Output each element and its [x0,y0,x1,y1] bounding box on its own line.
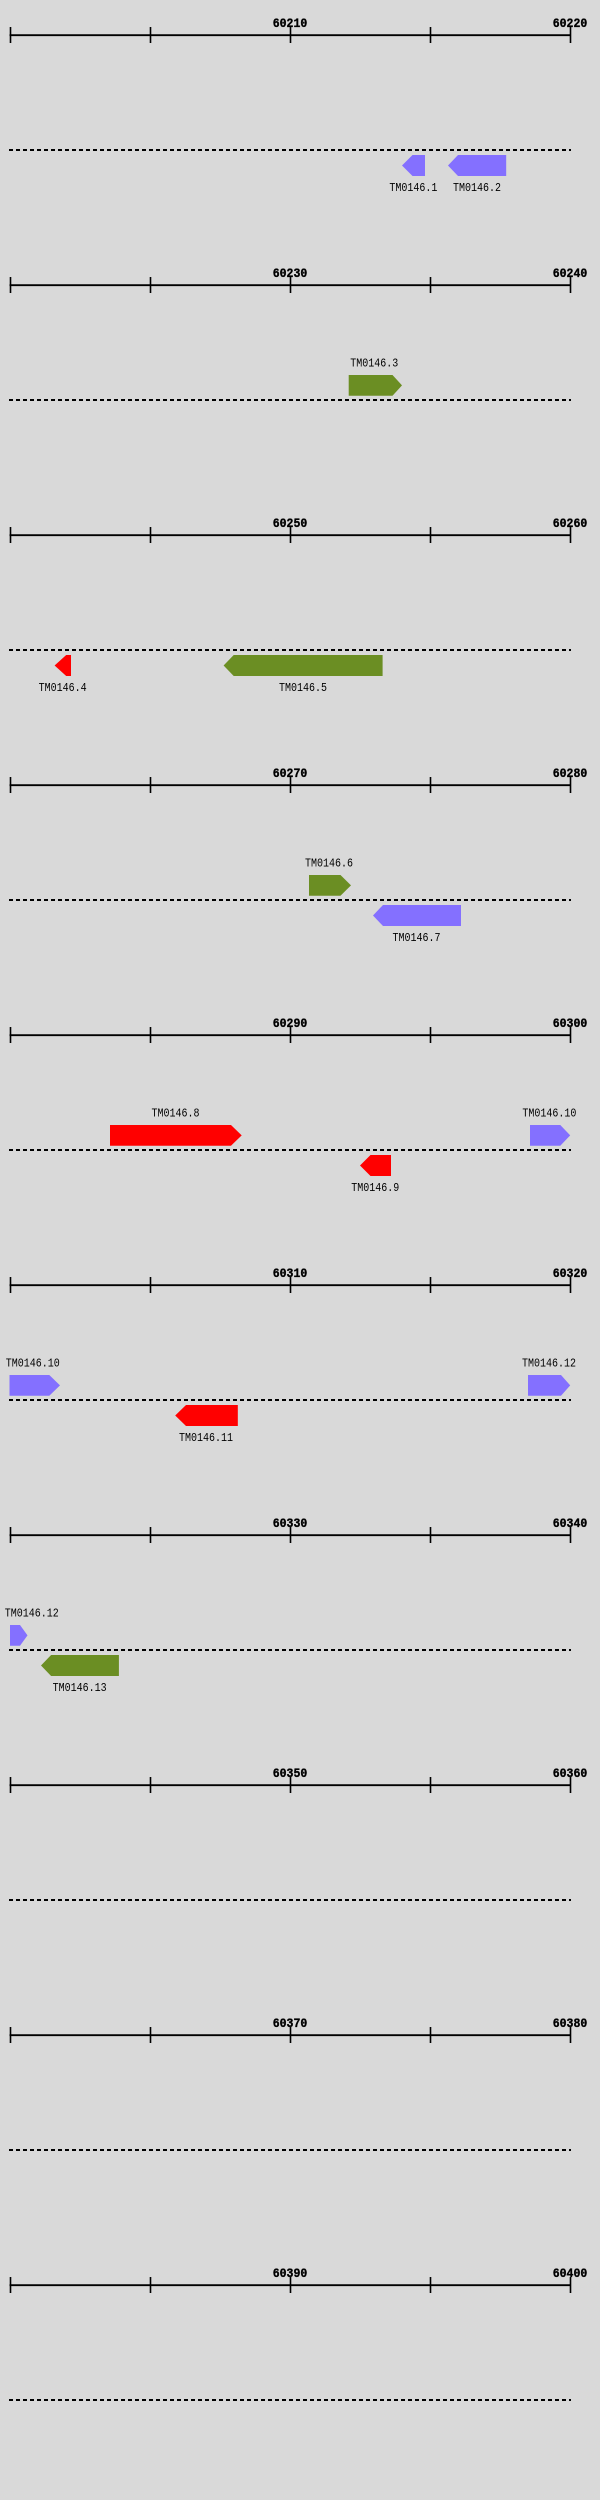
ruler tick 9.0 [10,2027,12,2043]
svg-text:TM0146.10: TM0146.10 [522,1106,576,1120]
svg-text:60210: 60210 [273,17,308,31]
svg-text:60230: 60230 [273,267,308,281]
svg-text:60330: 60330 [273,1517,308,1531]
ruler tick 5.1 [150,1027,152,1043]
ruler tick 8.1 [150,1777,152,1793]
svg-text:TM0146.4: TM0146.4 [39,681,87,695]
strand divider dashed line panel 1 [9,149,571,151]
ruler tick 1.0 [10,27,12,43]
ruler tick 10.0 [10,2277,12,2293]
svg-text:60300: 60300 [553,1017,588,1031]
ruler scale line panel 6 [10,1284,572,1286]
svg-text:60400: 60400 [553,2267,588,2281]
gene arrow TM0146.13 (green, reverse/left) [41,1655,119,1676]
ruler tick 10.4 [570,2277,572,2293]
ruler tick 5.3 [430,1027,432,1043]
ruler tick 4.2 [290,777,292,793]
svg-text:TM0146.8: TM0146.8 [152,1106,200,1120]
svg-text:60350: 60350 [273,1767,308,1781]
gene arrow TM0146.5 (green, reverse/left) [224,655,383,676]
ruler tick 4.0 [10,777,12,793]
ruler tick 9.4 [570,2027,572,2043]
gene arrow TM0146.12 (purple, forward/right) [528,1375,570,1396]
strand divider dashed line panel 9 [9,2149,571,2151]
svg-text:60270: 60270 [273,767,308,781]
ruler scale line panel 9 [10,2034,572,2036]
ruler scale line panel 7 [10,1534,572,1536]
svg-text:TM0146.6: TM0146.6 [305,856,353,870]
svg-text:60240: 60240 [553,267,588,281]
ruler tick 9.2 [290,2027,292,2043]
ruler tick 4.4 [570,777,572,793]
gene arrow TM0146.10 (purple, forward/right) [10,1375,61,1396]
ruler tick 6.2 [290,1277,292,1293]
ruler tick 6.0 [10,1277,12,1293]
gene arrow TM0146.11 (red, reverse/left) [175,1405,238,1426]
svg-text:TM0146.10: TM0146.10 [6,1356,60,1370]
strand divider dashed line panel 7 [9,1649,571,1651]
gene arrow TM0146.6 (green, forward/right) [309,875,351,896]
ruler tick 8.0 [10,1777,12,1793]
strand divider dashed line panel 4 [9,899,571,901]
svg-text:60370: 60370 [273,2017,308,2031]
ruler tick 5.2 [290,1027,292,1043]
svg-text:TM0146.12: TM0146.12 [5,1606,59,1620]
svg-text:60360: 60360 [553,1767,588,1781]
strand divider dashed line panel 8 [9,1899,571,1901]
svg-text:TM0146.9: TM0146.9 [351,1181,399,1195]
svg-text:TM0146.12: TM0146.12 [522,1356,576,1370]
svg-text:TM0146.3: TM0146.3 [350,356,398,370]
ruler tick 10.2 [290,2277,292,2293]
ruler scale line panel 1 [10,34,572,36]
svg-text:TM0146.11: TM0146.11 [179,1431,233,1445]
gene arrow TM0146.7 (purple, reverse/left) [373,905,461,926]
gene arrow TM0146.3 (green, forward/right) [349,375,402,396]
ruler tick 1.1 [150,27,152,43]
ruler tick 5.0 [10,1027,12,1043]
gene arrow TM0146.8 (red, forward/right) [110,1125,242,1146]
gene arrow TM0146.12 (purple, forward/right) [10,1625,28,1646]
gene arrow TM0146.4 (red, reverse/left) [55,655,71,676]
svg-text:TM0146.7: TM0146.7 [393,931,441,945]
ruler tick 7.3 [430,1527,432,1543]
ruler scale line panel 5 [10,1034,572,1036]
ruler tick 2.2 [290,277,292,293]
strand divider dashed line panel 10 [9,2399,571,2401]
gene arrow TM0146.9 (red, reverse/left) [360,1155,391,1176]
ruler tick 4.3 [430,777,432,793]
ruler tick 3.1 [150,527,152,543]
svg-text:60320: 60320 [553,1267,588,1281]
svg-text:60280: 60280 [553,767,588,781]
ruler scale line panel 3 [10,534,572,536]
svg-text:60290: 60290 [273,1017,308,1031]
ruler tick 2.1 [150,277,152,293]
svg-text:TM0146.5: TM0146.5 [279,681,327,695]
svg-text:60260: 60260 [553,517,588,531]
strand divider dashed line panel 5 [9,1149,571,1151]
ruler tick 9.1 [150,2027,152,2043]
ruler tick 3.2 [290,527,292,543]
ruler tick 4.1 [150,777,152,793]
ruler tick 7.1 [150,1527,152,1543]
strand divider dashed line panel 2 [9,399,571,401]
ruler tick 3.4 [570,527,572,543]
ruler scale line panel 2 [10,284,572,286]
svg-text:TM0146.13: TM0146.13 [53,1681,107,1695]
strand divider dashed line panel 6 [9,1399,571,1401]
svg-text:60390: 60390 [273,2267,308,2281]
ruler tick 2.4 [570,277,572,293]
svg-text:60340: 60340 [553,1517,588,1531]
svg-text:60310: 60310 [273,1267,308,1281]
svg-text:TM0146.1: TM0146.1 [389,181,437,195]
ruler tick 10.1 [150,2277,152,2293]
ruler tick 7.2 [290,1527,292,1543]
ruler scale line panel 10 [10,2284,572,2286]
gene arrow TM0146.1 (purple, reverse/left) [402,155,425,176]
gene arrow TM0146.10 (purple, forward/right) [530,1125,570,1146]
ruler tick 1.4 [570,27,572,43]
ruler tick 8.2 [290,1777,292,1793]
ruler tick 2.0 [10,277,12,293]
ruler tick 5.4 [570,1027,572,1043]
ruler tick 6.4 [570,1277,572,1293]
ruler tick 6.1 [150,1277,152,1293]
ruler tick 7.0 [10,1527,12,1543]
ruler scale line panel 8 [10,1784,572,1786]
svg-text:60220: 60220 [553,17,588,31]
strand divider dashed line panel 3 [9,649,571,651]
ruler tick 6.3 [430,1277,432,1293]
ruler tick 1.3 [430,27,432,43]
ruler scale line panel 4 [10,784,572,786]
ruler tick 9.3 [430,2027,432,2043]
ruler tick 10.3 [430,2277,432,2293]
ruler tick 8.3 [430,1777,432,1793]
svg-text:60380: 60380 [553,2017,588,2031]
svg-text:TM0146.2: TM0146.2 [453,181,501,195]
gene arrow TM0146.2 (purple, reverse/left) [448,155,506,176]
ruler tick 3.3 [430,527,432,543]
ruler tick 3.0 [10,527,12,543]
ruler tick 1.2 [290,27,292,43]
ruler tick 8.4 [570,1777,572,1793]
svg-text:60250: 60250 [273,517,308,531]
ruler tick 7.4 [570,1527,572,1543]
ruler tick 2.3 [430,277,432,293]
